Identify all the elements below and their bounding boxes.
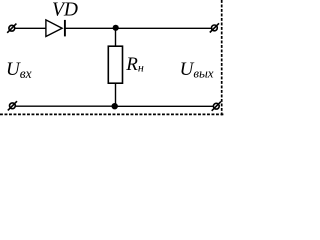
resistor Rн xyxy=(108,46,122,83)
wire: diode cathode to node A xyxy=(65,27,116,29)
node B: junction dot bottom xyxy=(112,103,118,109)
node A: junction dot top xyxy=(113,25,119,31)
wire: resistor bottom to node B xyxy=(115,83,117,106)
wire: node A to output terminal xyxy=(116,27,212,29)
wire: node A down to resistor top xyxy=(115,28,117,47)
terminal: input top-left xyxy=(7,24,16,33)
terminal: output bottom-right xyxy=(212,102,221,111)
wire: bottom rail, node B to output return terminal xyxy=(115,105,214,107)
wire: top rail, input terminal to diode anode xyxy=(15,27,47,29)
svg-text:VD: VD xyxy=(52,0,78,20)
terminal: input bottom-left xyxy=(8,101,17,110)
terminal: output top-right xyxy=(210,23,219,32)
diode VD xyxy=(46,20,65,37)
wire: bottom rail, input return terminal to node B xyxy=(15,105,114,107)
